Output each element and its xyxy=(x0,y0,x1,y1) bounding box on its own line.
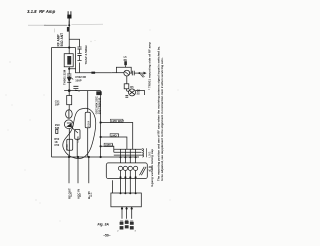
node ladder 4 xyxy=(135,156,137,158)
wire emitter rail xyxy=(64,90,100,92)
label LMO 3 xyxy=(105,143,114,147)
node bus 3 xyxy=(100,145,102,147)
transistor Q501 xyxy=(66,110,73,119)
svg-text:10P: 10P xyxy=(55,103,60,107)
wire antenna feed right (faint) xyxy=(72,23,104,25)
node ladder 3 xyxy=(129,156,131,158)
node ladder 1 xyxy=(120,156,122,158)
node bottom 1 xyxy=(68,156,70,158)
transistor Q503 xyxy=(124,70,130,76)
speck tick xyxy=(53,29,55,33)
tuning gang box xyxy=(106,163,147,179)
svg-text:2: 2 xyxy=(117,231,119,233)
resistor R506 xyxy=(65,139,73,150)
svg-text:R506: R506 xyxy=(65,144,69,151)
capacitor C509 on bus top xyxy=(96,91,101,95)
label pin2 AGC (vertical) xyxy=(76,189,82,199)
gang arrow xyxy=(140,167,147,175)
label bus (vertical) xyxy=(95,96,102,114)
wire LMO 1 xyxy=(101,123,133,150)
wire LMO 3 xyxy=(101,146,114,152)
svg-text:2S: 2S xyxy=(137,92,140,96)
label thermistor (vertical) xyxy=(62,69,66,85)
node bottom 2 xyxy=(77,156,79,158)
svg-text:4-gang variable tuning cap: 4-gang variable tuning cap xyxy=(150,149,154,187)
resistor R505 xyxy=(75,129,80,157)
svg-text:to be adjusted, see supplement: to be adjusted, see supplement to the al… xyxy=(160,57,164,181)
wire pin 2 down xyxy=(77,157,79,183)
node bus 2 xyxy=(100,136,102,138)
svg-text:C50: C50 xyxy=(54,143,59,147)
wire emitter down xyxy=(126,76,128,84)
capacitor C502b xyxy=(67,74,71,76)
wire antenna down xyxy=(68,21,70,47)
trimmer CT2 xyxy=(123,166,127,170)
resistor R507 xyxy=(124,84,134,91)
module shield box bottom rail xyxy=(52,156,140,158)
label R503 (left) xyxy=(54,137,59,147)
capacitor C503 xyxy=(67,91,72,110)
svg-text:3.1.8 RF Amp: 3.1.8 RF Amp xyxy=(27,9,56,14)
resistor R502 (left) xyxy=(56,129,58,133)
svg-text:WHT: WHT xyxy=(71,192,73,197)
wire bypass around filter xyxy=(69,48,75,69)
svg-text:R504: R504 xyxy=(87,120,91,127)
svg-text:RED: RED xyxy=(91,192,93,197)
wire base xyxy=(112,72,124,74)
node output xyxy=(138,72,140,74)
node gang 3 xyxy=(129,176,131,178)
wire antenna feed left xyxy=(28,24,46,26)
antenna J501 xyxy=(67,11,71,25)
resistor R504 xyxy=(85,91,90,157)
inductor L502 to VCC xyxy=(124,56,128,67)
node gang 2 xyxy=(124,176,126,178)
arrow output xyxy=(144,72,147,75)
page number xyxy=(103,234,111,238)
capacitor C501 xyxy=(77,47,81,72)
node emitter rail xyxy=(68,89,71,92)
wire pin 3 down xyxy=(88,157,90,183)
title 3.1.8 RF Amp xyxy=(27,9,56,14)
node gang 1 xyxy=(120,176,122,178)
note long (vertical) xyxy=(157,46,164,181)
capacitor C510 xyxy=(117,221,123,233)
caption Fig. 3A xyxy=(98,223,110,227)
label 4-gang xyxy=(149,165,153,172)
ground hatch xyxy=(140,74,144,77)
node filter top xyxy=(68,46,70,48)
label pin3 B+ (vertical) xyxy=(87,191,93,199)
svg-text:R5: R5 xyxy=(130,86,134,89)
diode D501 xyxy=(67,69,73,91)
module shield box left edge xyxy=(51,48,53,158)
tuner box xyxy=(111,193,141,207)
label LMO T xyxy=(111,133,120,137)
svg-text:TH501 22M: TH501 22M xyxy=(62,69,66,85)
label ANT 50ohm (vertical) xyxy=(57,33,64,47)
svg-text:Fig. 3A: Fig. 3A xyxy=(98,223,110,227)
wire tuner pin 2 xyxy=(126,207,128,219)
wire LMO 2 xyxy=(101,137,127,149)
coil L503 xyxy=(141,148,151,157)
svg-text:–50–: –50– xyxy=(103,234,111,238)
svg-text:TRAP 3.5MHz: TRAP 3.5MHz xyxy=(84,45,88,65)
wire tuner pin 3 xyxy=(131,207,133,219)
svg-text:50Ω ANT: 50Ω ANT xyxy=(60,33,64,47)
ferrite bead on wire xyxy=(91,72,95,74)
node antenna junction xyxy=(68,24,70,26)
node bus 1 xyxy=(100,121,102,123)
wire tuner pin 1 xyxy=(121,207,123,219)
label LMO WIT xyxy=(111,119,124,123)
wire branch to coupling caps xyxy=(69,39,79,47)
resistor R508 xyxy=(125,95,128,97)
node tuner 1 xyxy=(121,207,123,209)
wire to amp stage xyxy=(76,69,112,73)
trimmer CT4 xyxy=(134,166,138,170)
svg-text:* TR501 mounting side of RF am: * TR501 mounting side of RF amp xyxy=(148,42,152,90)
node filter bottom xyxy=(68,68,70,70)
capacitor C507 xyxy=(130,71,146,76)
inductor L501 xyxy=(67,27,70,32)
wires gang to tuner xyxy=(113,171,136,194)
trimmer CT3 xyxy=(128,166,132,170)
tuning ladder rows xyxy=(114,149,142,155)
label pin1 RF OUT (vertical) xyxy=(67,188,73,199)
tuning ladder verticals xyxy=(121,149,136,163)
filter FL501 xyxy=(64,48,73,69)
svg-text:BLK: BLK xyxy=(80,192,82,197)
node gang 4 xyxy=(135,176,137,178)
wire bus from rail up xyxy=(100,91,102,157)
shield oval xyxy=(63,108,96,158)
trimmer CT1 xyxy=(118,166,122,170)
scan specks xyxy=(6,30,179,222)
svg-text:100P: 100P xyxy=(75,78,81,82)
wire Q504 right xyxy=(136,91,145,95)
label Q502 (left) xyxy=(55,123,60,130)
node bottom 4 xyxy=(100,156,102,158)
node ladder 2 xyxy=(124,156,126,158)
svg-text:C506: C506 xyxy=(76,136,80,143)
svg-text:3: 3 xyxy=(135,231,137,233)
label Q504 xyxy=(137,89,141,96)
capacitor C511 xyxy=(125,220,129,228)
node tuner 3 xyxy=(131,207,133,209)
node tuner 2 xyxy=(126,207,128,209)
label C502 value xyxy=(75,75,86,82)
transistor Q502 xyxy=(64,120,78,157)
note asterisk (vertical) xyxy=(148,42,152,90)
wire pin 1 down xyxy=(68,157,70,183)
note inner lower (vertical) xyxy=(150,149,154,187)
module shield box top edge xyxy=(52,47,76,49)
label C501 value (vertical) xyxy=(84,45,88,65)
node bottom 3 xyxy=(88,156,90,158)
label C504 (left) xyxy=(55,100,60,107)
RF amp stage: bias box xyxy=(116,67,131,73)
transistor Q504 xyxy=(127,89,136,96)
resistor R501 xyxy=(73,86,79,91)
capacitor C512 xyxy=(130,221,137,233)
